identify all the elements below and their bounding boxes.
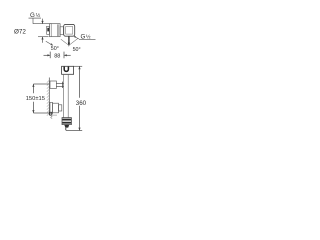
knob inner line	[50, 24, 52, 37]
dim 360 line lower	[79, 106, 81, 131]
wall hatching	[47, 81, 49, 116]
svg-text:½: ½	[86, 34, 91, 41]
top wall bracket	[62, 66, 74, 74]
wall hatch line	[48, 78, 50, 115]
dia72 bottom arrow	[42, 37, 44, 43]
mixer wall plate	[50, 102, 53, 113]
svg-text:150±15: 150±15	[26, 96, 45, 102]
outlet squiggle	[51, 116, 53, 119]
dia72 bottom extension line	[38, 36, 49, 38]
shower tail	[65, 128, 67, 131]
shower head band 1	[62, 119, 71, 121]
dim 360 line upper	[79, 66, 81, 98]
holder arm bottom	[56, 85, 63, 87]
dim 88 right arrow	[64, 54, 70, 56]
svg-text:50°: 50°	[51, 46, 59, 52]
outlet stem	[68, 36, 70, 43]
dia72 top arrow	[42, 19, 44, 24]
shower head band 2	[62, 122, 71, 124]
leader from label to extension line	[32, 18, 34, 24]
leader arrow of right G1/2	[75, 37, 79, 39]
underline of right G1/2	[79, 38, 96, 40]
right 50deg leg	[69, 38, 78, 45]
bracket hook (U)	[64, 67, 68, 72]
svg-text:G: G	[81, 34, 86, 41]
label G1/2 right	[81, 34, 92, 41]
label G1/2 top-left	[30, 12, 41, 19]
shower head outline	[62, 118, 71, 125]
left 50deg leg	[61, 39, 69, 45]
svg-text:Ø72: Ø72	[14, 29, 26, 36]
dim 88 right tick	[63, 52, 65, 59]
dim 150 line lower	[32, 102, 34, 113]
dim 88 left tick	[49, 52, 51, 59]
underline of G1/2 label	[29, 17, 42, 19]
rail left edge	[63, 75, 65, 118]
body block (wall union)	[64, 24, 75, 36]
svg-text:50°: 50°	[73, 47, 81, 53]
knob end cap	[47, 26, 50, 34]
mixer outlet	[50, 112, 52, 115]
svg-text:88: 88	[54, 53, 60, 59]
outlet flange line	[52, 114, 57, 116]
holder knob on wall	[50, 81, 56, 88]
mixer front cap	[59, 105, 62, 111]
rail right edge	[67, 75, 69, 118]
dim 150 line upper	[32, 84, 34, 93]
dim 150 bottom extension	[33, 112, 49, 114]
mixer body	[53, 103, 59, 113]
holder clamp	[61, 82, 63, 88]
holder arm top	[56, 82, 63, 84]
knob body	[50, 24, 61, 37]
body block inner rect	[66, 27, 73, 35]
shower handle	[64, 125, 69, 128]
stem arrow tip	[68, 43, 70, 47]
top extension line (knob top edge)	[33, 23, 52, 25]
svg-text:360: 360	[76, 100, 87, 107]
knob button	[47, 28, 49, 32]
neck	[60, 27, 63, 35]
dim 150 top extension	[33, 83, 49, 85]
dim 360 top extension	[74, 65, 83, 67]
dim 360 bottom extension	[66, 130, 82, 132]
dim 88 left arrow	[44, 54, 50, 56]
left 50deg arrow	[46, 41, 53, 45]
knob front double line	[56, 24, 58, 36]
